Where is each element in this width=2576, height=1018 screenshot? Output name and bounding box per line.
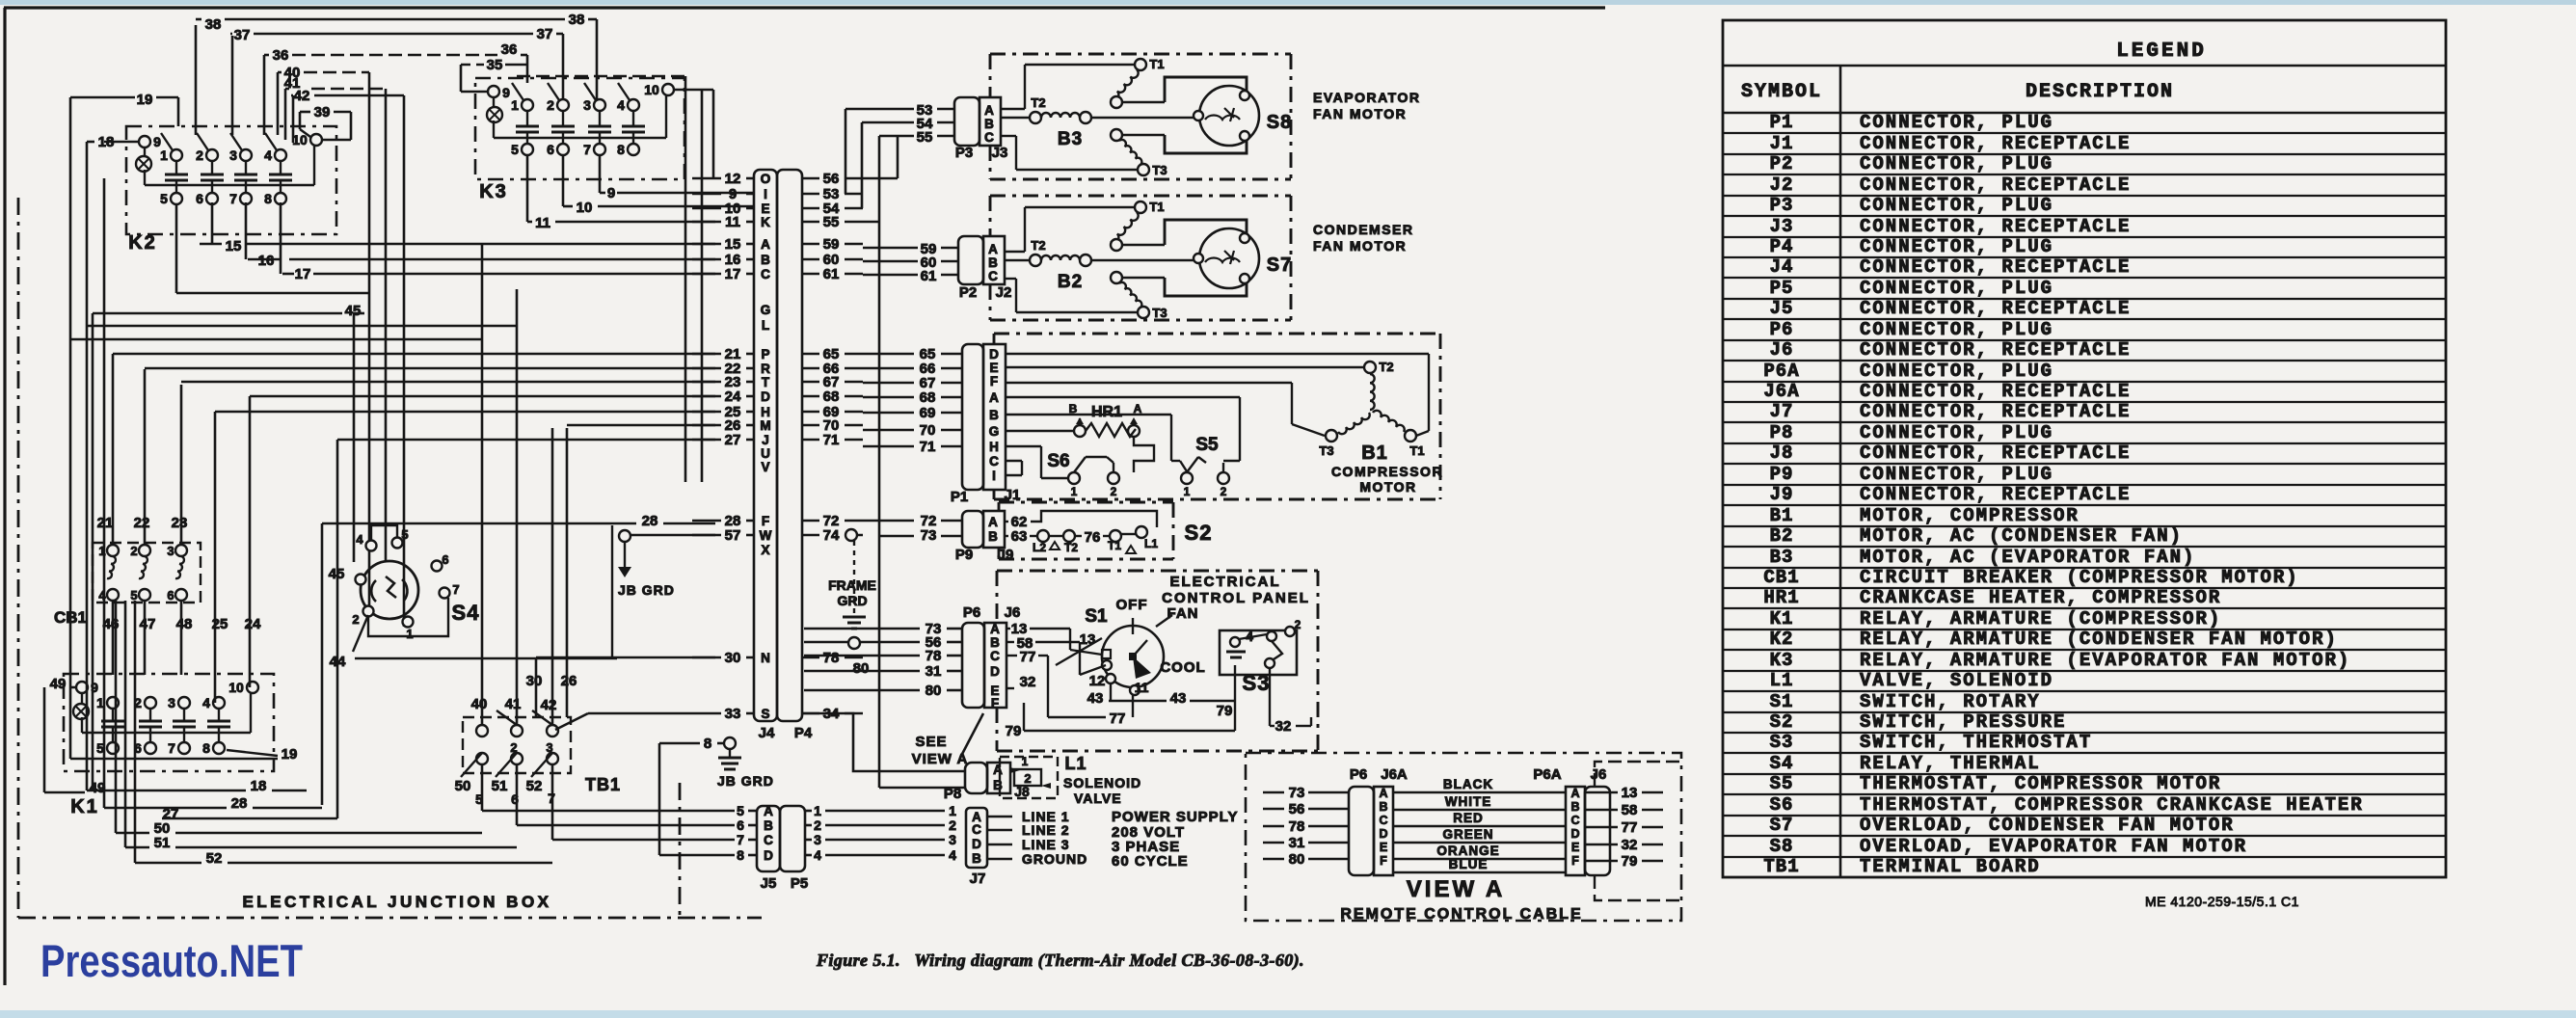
svg-text:S: S	[761, 707, 769, 721]
svg-text:3: 3	[229, 147, 237, 163]
motor B3 terminal T1	[1135, 59, 1146, 70]
svg-text:ELECTRICAL: ELECTRICAL	[1170, 574, 1281, 590]
svg-text:68: 68	[920, 389, 936, 406]
wire 23 into J4 strip	[692, 381, 721, 384]
svg-text:C: C	[764, 833, 773, 847]
relay K2 pin 9 lamp	[139, 136, 150, 147]
svg-text:32: 32	[1275, 718, 1292, 735]
svg-text:2: 2	[949, 817, 956, 833]
svg-text:J4: J4	[759, 725, 775, 741]
wire 67 F to T3	[1006, 382, 1292, 384]
svg-text:ORANGE: ORANGE	[1436, 844, 1499, 858]
wire row to J5 pin5	[482, 810, 735, 813]
svg-text:VIEW A: VIEW A	[1407, 876, 1505, 902]
svg-text:T3: T3	[1152, 163, 1167, 177]
svg-text:A: A	[993, 763, 1003, 777]
S1 contact 12	[1106, 674, 1115, 683]
connector receptacle J2	[983, 236, 1005, 284]
svg-text:J2: J2	[1770, 174, 1794, 196]
connector plug P8	[965, 763, 987, 793]
svg-text:3: 3	[949, 832, 956, 847]
svg-text:33: 33	[725, 706, 741, 722]
svg-text:51: 51	[492, 778, 508, 794]
svg-text:S6: S6	[1770, 794, 1794, 816]
svg-text:CONNECTOR, PLUG: CONNECTOR, PLUG	[1860, 464, 2053, 485]
svg-text:P1: P1	[1770, 112, 1794, 133]
wire 28 into J4 strip	[692, 520, 721, 522]
svg-text:J6A: J6A	[1381, 766, 1408, 783]
connector plug P3	[954, 97, 979, 146]
svg-text:51: 51	[154, 835, 171, 851]
legend table outer border	[1723, 20, 2446, 877]
wire 17 into J4 strip	[692, 273, 721, 276]
wire to P8 B	[879, 787, 965, 790]
svg-text:42: 42	[541, 697, 557, 713]
svg-text:A: A	[761, 237, 770, 252]
svg-text:18: 18	[251, 778, 267, 794]
svg-text:B: B	[990, 635, 1000, 650]
svg-text:S1: S1	[1770, 691, 1794, 712]
connector plug P5	[780, 806, 805, 871]
svg-text:15: 15	[226, 238, 242, 254]
legend row S7	[1723, 835, 2446, 837]
svg-text:MOTOR: MOTOR	[1359, 479, 1416, 495]
legend row J7	[1723, 421, 2446, 423]
wire 67 out of P4 strip	[802, 381, 819, 384]
svg-text:13: 13	[1622, 785, 1638, 801]
legend row J6A	[1723, 401, 2446, 403]
S4 inner contacts	[371, 580, 376, 602]
svg-text:VIEW A: VIEW A	[912, 751, 969, 767]
wire 66 out of P4 strip	[802, 367, 819, 370]
svg-text:CRANKCASE HEATER, COMPRESSOR: CRANKCASE HEATER, COMPRESSOR	[1860, 587, 2221, 608]
svg-text:K: K	[761, 215, 770, 229]
scan border left line	[3, 8, 6, 985]
svg-text:JB GRD: JB GRD	[618, 582, 675, 598]
svg-text:17: 17	[295, 266, 311, 282]
svg-text:63: 63	[1011, 528, 1028, 545]
legend row J3	[1723, 236, 2446, 238]
svg-text:37: 37	[537, 26, 553, 42]
svg-text:55: 55	[917, 129, 933, 146]
legend row P6A	[1723, 381, 2446, 383]
svg-text:SOLENOID: SOLENOID	[1063, 775, 1141, 790]
pressure switch S2 dashed box	[999, 501, 1173, 504]
svg-text:10: 10	[577, 200, 593, 216]
svg-text:59: 59	[823, 236, 840, 253]
wire 55 out of P4 strip	[802, 221, 819, 224]
wire 21 into J4 strip	[692, 353, 721, 356]
svg-text:S4: S4	[1770, 753, 1794, 774]
svg-text:OVERLOAD, EVAPORATOR FAN MOTOR: OVERLOAD, EVAPORATOR FAN MOTOR	[1860, 836, 2247, 857]
svg-text:C: C	[1379, 814, 1387, 827]
svg-text:7: 7	[452, 582, 459, 597]
svg-text:P4: P4	[794, 725, 813, 741]
wire 70 out of P4 strip	[802, 424, 819, 427]
svg-text:56: 56	[1289, 801, 1305, 817]
wire 17 long	[280, 202, 282, 274]
svg-text:HR1: HR1	[1091, 404, 1122, 420]
svg-text:7: 7	[229, 191, 237, 206]
wire 26 into J4 strip	[692, 424, 721, 427]
connector plug P4 strip	[777, 170, 802, 721]
svg-text:78: 78	[823, 650, 840, 666]
svg-text:LEGEND: LEGEND	[2116, 40, 2207, 63]
top blue scan band	[0, 0, 2576, 5]
svg-text:12: 12	[725, 171, 741, 187]
svg-text:E: E	[1380, 841, 1387, 854]
svg-text:3: 3	[167, 544, 174, 558]
svg-text:77: 77	[1622, 819, 1638, 836]
svg-text:A: A	[988, 242, 998, 256]
wire 65 out of P4 strip	[802, 353, 819, 356]
svg-text:FAN: FAN	[1167, 605, 1199, 622]
relay K2 dashed box	[126, 126, 336, 234]
svg-text:CONNECTOR, PLUG: CONNECTOR, PLUG	[1860, 153, 2053, 174]
svg-text:CONNECTOR, PLUG: CONNECTOR, PLUG	[1860, 319, 2053, 340]
svg-text:COOL: COOL	[1160, 659, 1205, 676]
svg-text:57: 57	[725, 527, 741, 544]
motor B3 terminal T3	[1111, 129, 1122, 141]
wire 22 into J4 strip	[692, 367, 721, 370]
wire 65 D to T1	[1006, 353, 1429, 355]
svg-text:FRAME: FRAME	[828, 577, 876, 593]
legend table title row line	[1723, 65, 2446, 67]
legend row B2	[1723, 546, 2446, 548]
svg-text:E: E	[761, 201, 769, 216]
svg-text:61: 61	[823, 266, 840, 282]
svg-text:1: 1	[406, 627, 413, 641]
svg-text:3: 3	[814, 832, 821, 847]
svg-text:1: 1	[814, 803, 821, 818]
svg-text:28: 28	[231, 795, 248, 812]
svg-text:B3: B3	[1058, 129, 1083, 149]
svg-text:80: 80	[926, 683, 942, 699]
electrical control panel dashed box	[997, 570, 1318, 573]
svg-text:W: W	[760, 528, 772, 543]
svg-text:I: I	[992, 469, 996, 483]
svg-text:ME 4120-259-15/5.1 C1: ME 4120-259-15/5.1 C1	[2145, 894, 2299, 909]
svg-text:71: 71	[823, 432, 840, 448]
svg-text:4: 4	[814, 847, 821, 863]
wire 26 vertical	[566, 428, 569, 717]
legend row P9	[1723, 484, 2446, 486]
svg-text:P6: P6	[1350, 766, 1367, 783]
svg-text:JB GRD: JB GRD	[717, 773, 774, 789]
svg-text:4: 4	[949, 847, 956, 863]
svg-text:38: 38	[205, 16, 222, 33]
svg-text:E: E	[989, 361, 998, 375]
svg-text:70: 70	[920, 422, 936, 439]
svg-text:77: 77	[1110, 710, 1126, 727]
svg-text:RELAY, ARMATURE (CONDENSER FAN: RELAY, ARMATURE (CONDENSER FAN MOTOR)	[1860, 629, 2338, 650]
svg-text:J8: J8	[1770, 442, 1794, 464]
svg-text:4: 4	[1246, 629, 1253, 644]
motor B1 star windings	[1364, 362, 1376, 373]
wire 32 right exit	[1269, 669, 1271, 726]
S1 contact 11	[1130, 685, 1140, 695]
svg-text:73: 73	[1289, 785, 1305, 801]
svg-text:B: B	[984, 117, 994, 131]
wire 18 to K2 pin 9	[104, 141, 139, 144]
svg-text:O: O	[761, 172, 771, 186]
svg-text:24: 24	[245, 616, 261, 632]
svg-text:B2: B2	[1058, 272, 1083, 292]
wire 72 out of P4 strip	[802, 520, 819, 522]
svg-text:1: 1	[511, 97, 519, 113]
left bottom verticals	[115, 601, 118, 833]
svg-text:P4: P4	[1770, 236, 1794, 257]
svg-text:J3: J3	[1770, 216, 1794, 237]
svg-text:K2: K2	[128, 232, 157, 254]
wire 9 from K3	[599, 155, 602, 193]
svg-text:S7: S7	[1770, 815, 1794, 836]
svg-text:S2: S2	[1770, 711, 1794, 733]
wire 16 into J4 strip	[692, 258, 721, 261]
wire 24 into J4 strip	[692, 395, 721, 398]
svg-text:6: 6	[442, 552, 448, 567]
svg-text:18: 18	[98, 134, 115, 150]
svg-text:P6A: P6A	[1533, 766, 1561, 783]
svg-text:1: 1	[1184, 485, 1191, 498]
wire 30 long	[536, 656, 715, 659]
svg-text:43: 43	[1170, 690, 1187, 707]
svg-text:B: B	[988, 255, 998, 270]
svg-text:10: 10	[228, 680, 244, 695]
svg-text:2: 2	[547, 97, 554, 113]
legend row S5	[1723, 793, 2446, 795]
svg-text:41: 41	[505, 696, 522, 712]
svg-text:POWER SUPPLY: POWER SUPPLY	[1112, 809, 1238, 825]
wire G to HR1	[1006, 430, 1074, 432]
wire 69 out of P4 strip	[802, 411, 819, 414]
relay K3 bottom contacts	[522, 144, 533, 155]
svg-text:EVAPORATOR: EVAPORATOR	[1313, 90, 1420, 105]
legend row S4	[1723, 773, 2446, 775]
svg-text:16: 16	[258, 253, 275, 269]
svg-text:GRD: GRD	[837, 593, 867, 608]
svg-text:T1: T1	[1149, 200, 1164, 214]
svg-text:B: B	[761, 253, 770, 267]
svg-text:S6: S6	[1047, 451, 1069, 471]
svg-text:2: 2	[1295, 618, 1301, 631]
svg-text:CONNECTOR, PLUG: CONNECTOR, PLUG	[1860, 422, 2053, 443]
svg-text:Pressauto.NET: Pressauto.NET	[40, 935, 303, 986]
relay K1 common bar	[82, 732, 251, 734]
solenoid valve L1 dashed box	[1000, 757, 1058, 798]
svg-text:T2: T2	[1031, 238, 1045, 253]
svg-text:J7: J7	[1770, 401, 1794, 422]
jb ground below strip	[659, 742, 700, 745]
wire 30 into J4 strip	[692, 656, 721, 659]
legend row K2	[1723, 649, 2446, 651]
legend row B3	[1723, 567, 2446, 569]
svg-text:B: B	[993, 778, 1003, 792]
svg-text:A: A	[764, 804, 773, 818]
relay K1 bottom contacts	[107, 742, 119, 754]
wire 27 into J4 strip	[692, 439, 721, 442]
svg-text:9: 9	[607, 185, 615, 201]
legend row S8	[1723, 856, 2446, 858]
relay K3 dashed box	[475, 78, 684, 179]
svg-text:R: R	[761, 362, 770, 376]
svg-text:L2: L2	[1033, 541, 1046, 554]
wire 16 long	[245, 202, 248, 259]
wire J2 C loop	[1005, 278, 1016, 280]
legend table header row line	[1723, 112, 2446, 115]
svg-text:T1: T1	[1149, 57, 1164, 71]
svg-text:Figure 5.1. Wiring diagram (: Figure 5.1. Wiring diagram (Therm-Air Mo…	[816, 951, 1304, 971]
wire 71 out of P4 strip	[802, 439, 819, 442]
svg-text:CONNECTOR, RECEPTACLE: CONNECTOR, RECEPTACLE	[1860, 298, 2131, 319]
svg-text:B: B	[989, 408, 999, 422]
relay K3 pin 10 right	[662, 84, 674, 95]
legend row K3	[1723, 670, 2446, 672]
svg-text:T2: T2	[1379, 360, 1393, 374]
svg-text:A: A	[984, 103, 994, 118]
svg-text:D: D	[990, 664, 1000, 679]
svg-text:SEE: SEE	[915, 734, 947, 750]
svg-text:CONNECTOR, RECEPTACLE: CONNECTOR, RECEPTACLE	[1860, 381, 2131, 402]
svg-text:B: B	[1570, 800, 1579, 814]
wire A row to S5	[1006, 396, 1240, 398]
svg-text:OVERLOAD, CONDENSER FAN MOTOR: OVERLOAD, CONDENSER FAN MOTOR	[1860, 815, 2235, 836]
svg-text:T1: T1	[1409, 443, 1424, 458]
legend row J8	[1723, 463, 2446, 465]
svg-text:CONNECTOR, RECEPTACLE: CONNECTOR, RECEPTACLE	[1860, 484, 2131, 505]
overload S8 frame	[1165, 77, 1247, 102]
svg-text:A: A	[990, 622, 1000, 636]
svg-text:22: 22	[134, 515, 150, 531]
terminal board TB1 dashed box	[463, 717, 571, 773]
relay K3 pin 9 lamp	[488, 86, 499, 97]
svg-text:F: F	[990, 374, 998, 388]
svg-text:FAN MOTOR: FAN MOTOR	[1313, 106, 1407, 121]
svg-text:P3: P3	[955, 145, 973, 161]
wire 9 into J4 strip	[692, 193, 721, 196]
svg-text:78: 78	[1289, 818, 1305, 835]
svg-text:CONNECTOR, RECEPTACLE: CONNECTOR, RECEPTACLE	[1860, 216, 2131, 237]
svg-text:69: 69	[920, 405, 936, 421]
connector plug P6	[962, 623, 984, 708]
svg-text:B2: B2	[1770, 525, 1794, 547]
thermal relay S4	[361, 561, 418, 619]
svg-text:1: 1	[949, 803, 956, 818]
legend row P6	[1723, 339, 2446, 341]
svg-text:A: A	[989, 390, 999, 405]
S1 contact 13	[1102, 650, 1111, 658]
legend row K1	[1723, 629, 2446, 630]
svg-text:30: 30	[725, 650, 741, 666]
svg-text:S8: S8	[1770, 836, 1794, 857]
connector receptacle J3	[979, 97, 1001, 146]
legend row HR1	[1723, 607, 2446, 609]
svg-text:A: A	[1570, 787, 1579, 800]
svg-text:SWITCH, PRESSURE: SWITCH, PRESSURE	[1860, 711, 2066, 733]
relay K2 pin 10	[310, 134, 322, 146]
svg-text:D: D	[761, 389, 770, 404]
svg-text:2: 2	[352, 612, 359, 627]
svg-text:78: 78	[926, 648, 942, 664]
svg-text:TERMINAL BOARD: TERMINAL BOARD	[1860, 856, 2041, 877]
svg-text:B: B	[988, 529, 998, 544]
svg-text:COMPRESSOR: COMPRESSOR	[1331, 464, 1443, 479]
vertical 635 to 44 wire	[611, 525, 613, 658]
svg-text:D: D	[989, 347, 999, 362]
svg-text:DESCRIPTION: DESCRIPTION	[2026, 81, 2174, 103]
wire 68 out of P4 strip	[802, 395, 819, 398]
wire 54 out of P4 strip	[802, 207, 819, 210]
svg-text:P6A: P6A	[1763, 361, 1799, 382]
svg-text:T2: T2	[1031, 95, 1045, 110]
overload S8 motor circle	[1199, 86, 1259, 146]
svg-text:CONNECTOR, RECEPTACLE: CONNECTOR, RECEPTACLE	[1860, 442, 2131, 464]
svg-text:2: 2	[1024, 771, 1031, 786]
thermostat switch S3 box	[1220, 630, 1297, 675]
wire 25 into J4 strip	[692, 411, 721, 414]
svg-text:L1: L1	[1770, 670, 1794, 691]
wire 56 riser	[863, 177, 898, 180]
svg-text:L1: L1	[1064, 754, 1087, 773]
svg-text:S5: S5	[1770, 773, 1794, 794]
svg-text:REMOTE CONTROL CABLE: REMOTE CONTROL CABLE	[1340, 906, 1582, 923]
svg-text:S8: S8	[1267, 112, 1292, 133]
svg-text:2: 2	[196, 147, 203, 163]
wire 66 E to T2	[1006, 366, 1364, 368]
svg-text:79: 79	[1006, 723, 1022, 739]
svg-text:4: 4	[264, 147, 272, 163]
svg-text:J2: J2	[996, 284, 1012, 301]
view A connector P6A J6 right	[1566, 787, 1585, 875]
TB1 terminals	[476, 725, 488, 737]
svg-text:J6: J6	[1005, 604, 1021, 621]
svg-text:I: I	[764, 187, 767, 201]
legend row S1	[1723, 711, 2446, 713]
svg-text:76: 76	[1085, 529, 1101, 546]
relay K1 pin 9 lamp	[76, 682, 88, 693]
svg-text:E: E	[1571, 841, 1579, 854]
svg-text:C: C	[972, 822, 981, 837]
svg-text:VALVE, SOLENOID: VALVE, SOLENOID	[1860, 670, 2053, 691]
svg-text:J5: J5	[761, 875, 777, 892]
svg-text:CONNECTOR, PLUG: CONNECTOR, PLUG	[1860, 361, 2053, 382]
svg-text:5: 5	[160, 191, 168, 206]
wire 21 long	[113, 353, 715, 356]
svg-text:J6: J6	[1591, 766, 1607, 783]
svg-text:74: 74	[823, 527, 840, 544]
svg-text:RELAY, ARMATURE (COMPRESSOR): RELAY, ARMATURE (COMPRESSOR)	[1860, 608, 2221, 630]
svg-text:24: 24	[725, 388, 741, 405]
svg-text:11: 11	[535, 215, 550, 231]
legend row B1	[1723, 525, 2446, 527]
overload S7 motor circle	[1199, 228, 1259, 288]
wire 30 vertical	[535, 657, 538, 717]
svg-text:D: D	[764, 848, 773, 863]
legend row P2	[1723, 174, 2446, 175]
svg-text:79: 79	[1622, 853, 1638, 870]
svg-text:38: 38	[569, 12, 585, 28]
wire 12 into J4 strip	[692, 177, 721, 180]
relay K1 contacts	[107, 697, 119, 709]
svg-text:80: 80	[1289, 851, 1305, 868]
legend row P1	[1723, 132, 2446, 134]
svg-text:TB1: TB1	[585, 775, 621, 794]
svg-text:4: 4	[617, 97, 625, 113]
svg-text:K1: K1	[1770, 608, 1794, 630]
svg-text:17: 17	[725, 266, 741, 282]
svg-text:47: 47	[140, 616, 156, 632]
svg-text:32: 32	[1622, 837, 1638, 853]
